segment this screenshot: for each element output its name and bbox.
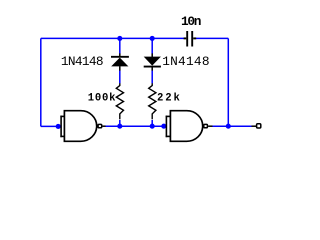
wire: gate U1 output to gate U2 input bbox=[105, 125, 163, 127]
node: R2 bottom junction bbox=[150, 124, 155, 129]
node: top junction of D1 bbox=[117, 36, 122, 41]
svg-text:10n: 10n bbox=[181, 14, 201, 29]
resistor R2 22k bbox=[149, 83, 156, 119]
diode D2 1N4148 (cathode down) bbox=[144, 53, 161, 70]
capacitor C1 10n bbox=[184, 31, 197, 47]
wire: D2 to R2 link bbox=[151, 70, 153, 83]
wire: diode D1 top stub bbox=[119, 38, 121, 53]
svg-text:1N4148: 1N4148 bbox=[162, 54, 210, 69]
wire: gate U2 output to terminal bbox=[212, 125, 251, 127]
diode D1 1N4148 (cathode up) bbox=[111, 53, 129, 70]
wire: top horizontal to capacitor left plate bbox=[41, 37, 184, 39]
wire: D1 to R1 link bbox=[119, 70, 121, 83]
node: R1 bottom junction bbox=[117, 124, 122, 129]
output terminal bbox=[252, 125, 257, 127]
wire: R1 bottom stub bbox=[119, 120, 121, 126]
svg-text:1N4148: 1N4148 bbox=[61, 54, 103, 69]
node: top junction of D2 and capacitor bbox=[150, 36, 155, 41]
node: U2 input junction bbox=[161, 124, 166, 129]
nand gate U1 bbox=[60, 111, 105, 142]
wire: bottom-left horizontal to gate U1 input bbox=[41, 125, 60, 127]
svg-text:22k: 22k bbox=[157, 93, 182, 105]
node: U1 input junction bbox=[56, 124, 61, 129]
wire: diode D2 top stub bbox=[151, 38, 153, 53]
wire: capacitor right plate to top-right corner bbox=[196, 37, 228, 39]
wire: right vertical from capacitor to output node bbox=[227, 38, 229, 126]
wire: left vertical feedback wire bbox=[40, 38, 42, 126]
nand gate U2 bbox=[166, 111, 213, 142]
node: output junction bbox=[226, 124, 231, 129]
resistor R1 100k bbox=[116, 83, 123, 119]
svg-text:100k: 100k bbox=[88, 93, 117, 105]
wire: R2 bottom stub bbox=[151, 120, 153, 126]
